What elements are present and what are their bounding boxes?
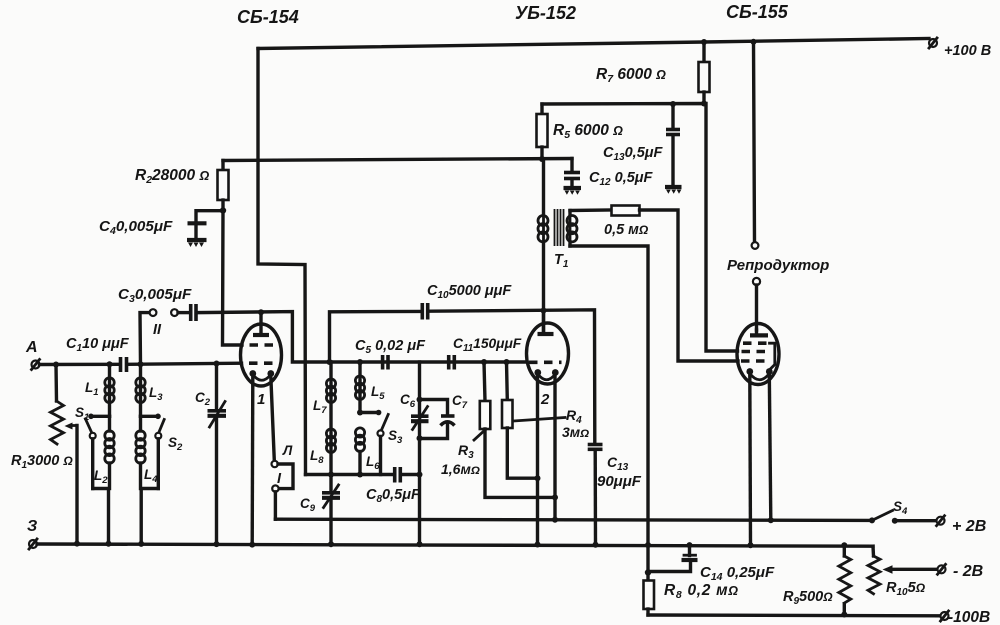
inductor L7 — [326, 362, 335, 475]
switch S3 — [360, 410, 388, 475]
tube3 anode — [750, 330, 768, 335]
node tube1 filament on earth — [249, 542, 255, 548]
inductor L8 — [326, 429, 335, 453]
svg-text:СБ-154: СБ-154 — [237, 7, 299, 27]
capacitor C5 0.02uF — [383, 355, 388, 370]
capacitor C11 150uuF — [449, 355, 455, 370]
node L2 branch on earth — [106, 541, 112, 547]
node C6 top — [417, 397, 423, 403]
tube2 grid dashes — [529, 360, 562, 364]
svg-text:А: А — [25, 339, 38, 356]
svg-text:1: 1 — [257, 391, 265, 408]
svg-text:Л: Л — [282, 443, 293, 458]
switch S2 — [141, 414, 165, 489]
loudspeaker jack lower — [753, 278, 760, 285]
transformer T1 primary — [538, 159, 548, 334]
terminal +100V — [929, 38, 937, 48]
svg-text:С110 μμF: С110 μμF — [66, 336, 130, 354]
tube1 control grid dashes — [249, 361, 274, 365]
wire screen line R2-R5 — [223, 159, 572, 161]
resistor R8 — [644, 573, 655, 616]
capacitor C7 — [420, 400, 455, 439]
terminal A antenna — [32, 360, 40, 370]
tube2 anode — [538, 311, 554, 335]
link I strap — [278, 464, 293, 489]
resistor 0.5Mohm grid leak with wire to tube3 grid — [570, 206, 738, 362]
inductor L2 — [105, 416, 114, 488]
svg-text:+ 2В: + 2В — [952, 518, 986, 535]
capacitor C10 5000uuF — [422, 303, 427, 320]
node C8 right — [417, 472, 423, 478]
svg-text:- 2В: - 2В — [953, 563, 983, 580]
node C2 top — [214, 361, 220, 367]
wire riser to wavechange contact — [140, 313, 150, 365]
capacitor C6 variable — [411, 362, 429, 438]
resistor R5 — [537, 104, 548, 159]
tube1 filament — [249, 370, 274, 380]
node R3 bottom — [552, 494, 558, 500]
pointer R3 label — [474, 430, 486, 441]
wire screen feed bus y104 — [542, 104, 738, 352]
tube 3 envelope — [737, 324, 779, 385]
phone jack terminal lower — [272, 485, 278, 491]
tube 1 envelope — [241, 324, 282, 386]
node L3 top — [138, 361, 144, 367]
resistor R3 — [480, 362, 555, 497]
inductor L1 — [105, 364, 114, 416]
node oscillator top riser — [327, 359, 333, 365]
wire C3 to tube1 anode — [198, 312, 330, 362]
resistor R10 5ohm rheostat — [868, 546, 880, 594]
tube3 screen grid dashes — [742, 350, 770, 354]
node tube2 filament on earth — [535, 542, 541, 548]
wire tube1 filament right to jack — [271, 376, 275, 461]
terminal +2V — [937, 516, 945, 526]
svg-text:R228000 Ω: R228000 Ω — [135, 167, 209, 186]
node tube2 filament on +2V — [552, 517, 558, 523]
resistor R4 — [502, 362, 538, 478]
node R8 top — [645, 569, 651, 575]
node R7 top — [701, 39, 707, 45]
node L4 branch on earth — [138, 541, 144, 547]
wire -100V bus — [648, 613, 940, 617]
capacitor C14 0.25uF — [648, 545, 698, 571]
tube1 anode — [253, 312, 269, 335]
node R9 bottom — [841, 612, 847, 618]
node L6 bottom — [357, 472, 363, 478]
terminal -2V — [938, 564, 946, 574]
transformer T1 core — [555, 209, 564, 246]
node R2-C4 — [220, 207, 226, 213]
phone jack terminal L — [272, 461, 278, 467]
svg-text:+100 В: +100 В — [944, 43, 991, 59]
wire C1 to tube1 grid — [128, 363, 242, 364]
svg-text:СБ-155: СБ-155 — [726, 2, 789, 22]
inductor L4 — [136, 416, 145, 488]
ground C4 — [187, 240, 207, 247]
node L5 top — [357, 359, 363, 365]
wire C10 to detector anode and C13b — [430, 310, 595, 444]
node C13b on earth — [593, 542, 599, 548]
node tube1 anode lead — [258, 309, 264, 315]
node C6 branch on earth — [417, 541, 423, 547]
wire tube2 filament right to +2V — [553, 375, 556, 520]
capacitor C13a 0.5uF — [666, 104, 680, 186]
resistor R9 500ohm — [839, 545, 851, 614]
capacitor C8 0.5uF — [395, 467, 420, 483]
terminal -100V — [941, 611, 949, 621]
switch S1 — [85, 414, 109, 489]
node L8 bottom — [328, 472, 334, 478]
svg-text:R7 6000 Ω: R7 6000 Ω — [596, 66, 666, 85]
pointer R4 label — [513, 418, 565, 422]
svg-text:II: II — [153, 322, 162, 338]
wire +2V filament line — [275, 519, 872, 520]
node C13a top — [670, 101, 676, 107]
wire jack to +2V filament line — [274, 492, 277, 519]
node tube3 filament on earth — [748, 542, 754, 548]
wire tube3 filament left to earth — [748, 374, 752, 545]
wire +100V top bus — [258, 39, 929, 49]
inductor L3 — [136, 364, 145, 416]
wire tube3 filament right to +2V — [769, 374, 771, 520]
tube1 screen grid dashes — [250, 343, 274, 347]
svg-text:З: З — [27, 518, 37, 535]
resistor R7 — [699, 42, 710, 104]
terminal earth — [29, 539, 37, 549]
svg-text:90μμF: 90μμF — [597, 473, 642, 490]
transformer T1 secondary — [567, 211, 577, 247]
wire oscillator bottom — [306, 473, 394, 476]
node tube3 filament on +2V — [768, 517, 774, 523]
switch II wavechange — [150, 309, 178, 316]
svg-text:С12 0,5μF: С12 0,5μF — [589, 170, 654, 188]
svg-text:-100В: -100В — [948, 609, 990, 625]
wire anode line grid2 — [330, 360, 527, 363]
node R4 top — [504, 359, 510, 365]
node C9 on earth — [328, 541, 334, 547]
node C2 on earth — [214, 541, 220, 547]
resistor R1 3000ohm rheostat — [51, 365, 64, 444]
node L5 L6 tap — [357, 410, 363, 416]
node R4 bottom — [535, 475, 541, 481]
node R9 top — [841, 542, 847, 548]
switch S4 — [869, 511, 937, 524]
wire jack to tube3 anode — [755, 285, 758, 330]
capacitor C3 0.005uF — [178, 304, 196, 321]
svg-text:С80,5μF: С80,5μF — [366, 487, 421, 505]
wiper R10 arrow — [883, 565, 938, 573]
svg-text:С130,5μF: С130,5μF — [603, 145, 664, 163]
node R7 bottom — [701, 101, 707, 107]
wire R2 to tube1 screen grid — [223, 211, 243, 346]
wire tube1 filament left to earth — [250, 376, 254, 545]
capacitor C12 0.5uF — [564, 159, 580, 188]
wire S2/L4 to earth bus — [141, 489, 159, 544]
svg-text:R8 0,2 мΩ: R8 0,2 мΩ — [664, 582, 739, 601]
wire T1 secondary bottom to bias node — [570, 246, 648, 573]
node speaker feed top — [751, 39, 757, 45]
svg-text:R5 6000 Ω: R5 6000 Ω — [553, 122, 623, 141]
svg-text:УБ-152: УБ-152 — [515, 3, 576, 23]
node R1 wiper on earth — [74, 541, 80, 547]
wire +100V to loudspeaker jack — [754, 42, 755, 242]
node R5 bottom — [539, 156, 545, 162]
svg-text:Репродуктор: Репродуктор — [727, 257, 829, 274]
inductor L5 — [355, 362, 364, 413]
wire earth bus — [37, 544, 873, 546]
wire tube2 filament left to earth — [536, 375, 539, 545]
svg-text:0,5 мΩ: 0,5 мΩ — [604, 222, 649, 238]
wire S1/L2 to earth bus — [93, 489, 110, 544]
wire riser to C10 line — [330, 311, 421, 362]
ground C12 — [564, 188, 582, 195]
wire C6 branch to bottom and earth — [418, 438, 421, 544]
capacitor C4 0.005uF — [188, 211, 224, 238]
wire B+ feed to L8 (SB-154 line) — [258, 49, 306, 475]
tube2 filament — [534, 369, 558, 380]
tube3 suppressor grid dashes — [743, 343, 775, 370]
node T1 secondary line on earth — [645, 542, 651, 548]
tube 2 envelope — [527, 323, 569, 384]
capacitor C13b 90uuF — [588, 445, 603, 545]
node C6 bottom — [417, 435, 423, 441]
wire antenna line to C1 — [40, 363, 120, 367]
svg-text:2: 2 — [540, 391, 550, 408]
node L1 top — [107, 361, 113, 367]
loudspeaker jack upper — [752, 242, 759, 249]
capacitor C2 variable — [208, 364, 227, 545]
capacitor C9 variable — [322, 475, 340, 545]
node R1 top — [53, 362, 59, 368]
node R3 top — [481, 359, 487, 365]
node C14 on earth — [687, 542, 693, 548]
resistor R2 — [218, 161, 229, 211]
wiper R1 arrow — [65, 423, 78, 544]
ground C13a — [665, 187, 682, 194]
tube3 control grid dashes — [741, 359, 770, 363]
node anode2 coupling — [541, 308, 547, 314]
tube3 filament — [746, 368, 772, 380]
capacitor C1 10uuF — [121, 357, 127, 372]
inductor L6 — [355, 428, 364, 475]
